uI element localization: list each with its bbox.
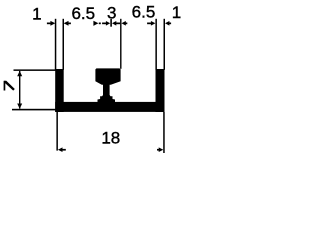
- svg-text:3: 3: [107, 3, 116, 22]
- svg-text:6.5: 6.5: [132, 2, 156, 21]
- dim arrow: 7 up: [17, 71, 22, 76]
- svg-text:1: 1: [172, 3, 181, 22]
- extension line: left wall outer edge (top): [55, 19, 57, 70]
- dim arrow: 7 down: [17, 104, 22, 109]
- extension line: left wall inner edge (top): [63, 19, 65, 70]
- profile floor: [55, 102, 164, 112]
- svg-text:1: 1: [32, 5, 41, 24]
- dim arrow: right-pointing at center tick: [106, 21, 110, 26]
- dim arrow: left 1, left-pointing, tip at x=63.6: [64, 21, 69, 26]
- extension line: stud head right edge: [120, 19, 121, 69]
- profile left wall: [55, 69, 64, 112]
- extension line: bottom left (for dim 18): [56, 112, 58, 151]
- dim arrow: right 1, right-pointing, tip at 155.4: [151, 21, 156, 26]
- svg-text:6.5: 6.5: [71, 4, 95, 23]
- dim line: 7 vertical: [19, 71, 20, 109]
- center stud stem: [103, 80, 110, 97]
- extension line: bottom right (for dim 18): [163, 112, 165, 153]
- dim arrow: 3 right outer, left-pointing, tip at 121.5: [122, 21, 126, 26]
- dim arrow: left-pointing at center tick: [112, 21, 116, 26]
- extension line: right wall outer edge (top): [164, 19, 166, 70]
- svg-text:18: 18: [101, 128, 120, 147]
- dim arrow: 18 right-pointing, tip at 163.2: [159, 147, 164, 152]
- dim arrow: 3 left, right-pointing chunky: [93, 21, 98, 26]
- profile right wall: [156, 69, 165, 112]
- dim arrow: 18 left-pointing, tip at 57.8: [58, 147, 63, 152]
- extension line tick: stud center: [110, 19, 112, 27]
- label 7 (left, rotated): hand-drawn glyph: [4, 81, 6, 91]
- extension line: top face, left side (for dim 7): [14, 69, 57, 71]
- extension line: bottom face, left side (for dim 7): [12, 109, 56, 111]
- center stud head: [95, 68, 120, 84]
- extension line: right wall inner edge (top): [155, 19, 157, 70]
- dash tail: [99, 23, 101, 25]
- dim arrow: right 1, left-pointing, tip at 165: [165, 21, 169, 26]
- dim arrow: left 1, right-pointing, tip at x=55: [50, 21, 55, 26]
- center stud base flare: [98, 95, 116, 103]
